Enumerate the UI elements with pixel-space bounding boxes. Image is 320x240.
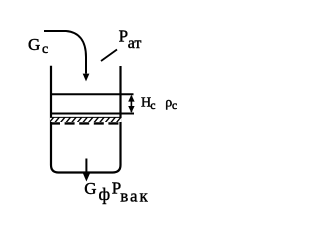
svg-text:c: c bbox=[172, 100, 177, 112]
svg-text:ф: ф bbox=[99, 184, 111, 204]
svg-text:G: G bbox=[84, 179, 96, 198]
svg-text:G: G bbox=[28, 35, 40, 54]
pointer slash to P_at bbox=[101, 50, 117, 62]
svg-text:c: c bbox=[42, 42, 48, 57]
svg-text:ат: ат bbox=[128, 35, 142, 52]
suspension level line (top of cake layer), extends to dimension tick bbox=[50, 93, 134, 95]
inflow curved arrow (suspension G_c) bbox=[44, 31, 86, 74]
svg-text:вак: вак bbox=[120, 186, 150, 205]
svg-text:Р: Р bbox=[119, 27, 128, 46]
outflow arrow (filtrate G_f) bbox=[85, 159, 87, 175]
bottom line of cake layer, extends to dimension tick bbox=[50, 113, 134, 115]
H_c dimension double arrow bbox=[130, 96, 132, 112]
filter septum: hatched band bbox=[50, 117, 122, 122]
svg-text:c: c bbox=[150, 100, 155, 112]
filter support: dashed line bbox=[50, 122, 122, 124]
vessel body (left wall, rounded bottom, right wall) bbox=[51, 66, 121, 173]
